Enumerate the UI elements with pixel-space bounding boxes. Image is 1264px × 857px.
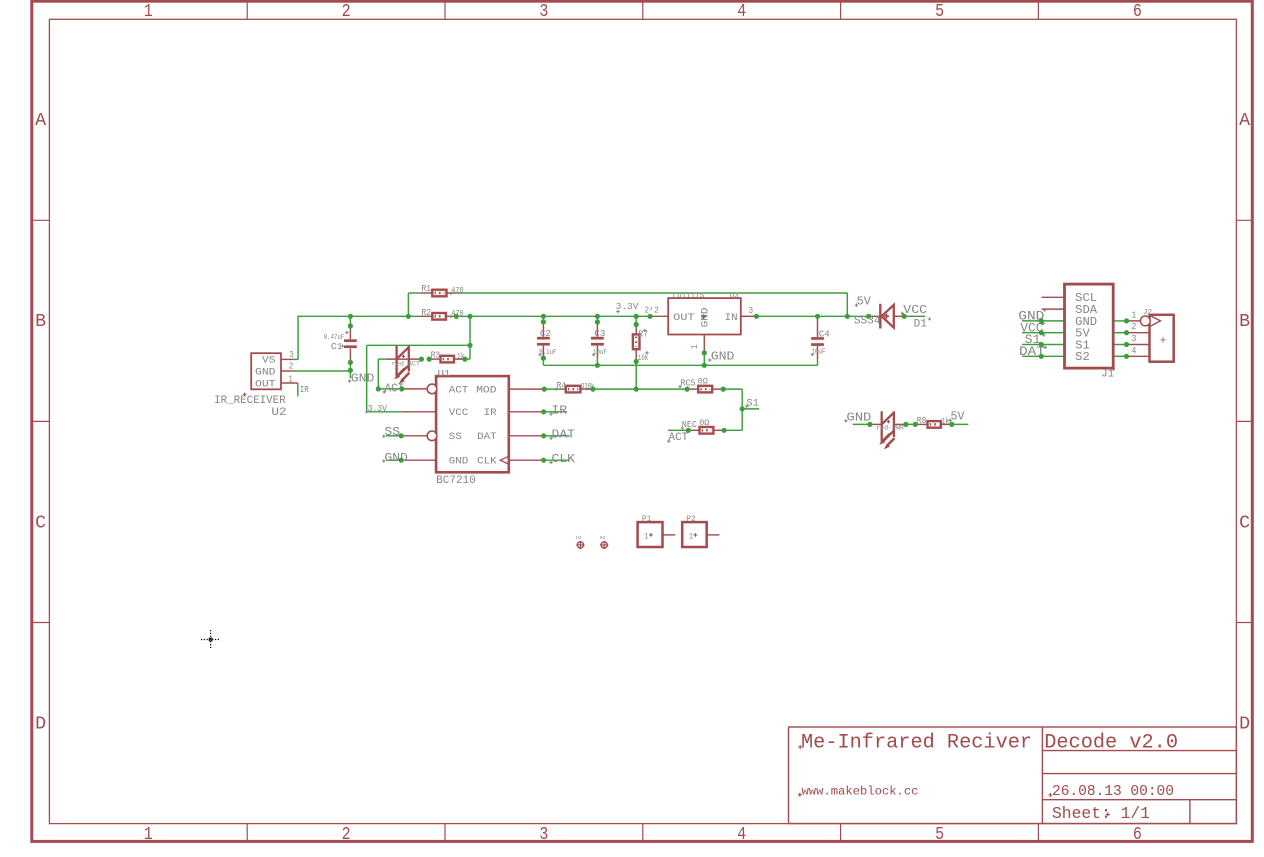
pin IR of U1 bbox=[509, 411, 544, 413]
svg-text:GND: GND bbox=[711, 350, 735, 364]
resistor R4 bbox=[561, 388, 566, 390]
resistor R3 bbox=[386, 358, 421, 360]
hole H1 bbox=[577, 542, 583, 548]
junction bbox=[595, 319, 600, 324]
svg-text:0Ω: 0Ω bbox=[699, 418, 709, 428]
svg-text:C1: C1 bbox=[331, 342, 343, 352]
svg-text:1k: 1k bbox=[941, 417, 949, 427]
resistor R1 bbox=[420, 292, 432, 294]
pin SCL stub bbox=[1042, 296, 1065, 298]
wire bbox=[367, 411, 402, 413]
capacitor C3 bbox=[596, 322, 598, 337]
capacitor C4 bbox=[817, 316, 819, 337]
pin CLK of U1 bbox=[509, 459, 544, 461]
svg-text:Sheet: 1/1: Sheet: 1/1 bbox=[1052, 805, 1150, 823]
wire bbox=[1022, 355, 1064, 357]
svg-text:OUT: OUT bbox=[673, 312, 695, 324]
svg-text:26.08.13 00:00: 26.08.13 00:00 bbox=[1052, 784, 1174, 800]
wire bbox=[349, 370, 351, 378]
junction bbox=[399, 386, 404, 391]
svg-text:IR: IR bbox=[552, 403, 568, 417]
wire bbox=[586, 388, 593, 390]
junction bbox=[1124, 354, 1129, 359]
svg-text:ACT: ACT bbox=[669, 432, 689, 444]
junction bbox=[685, 387, 690, 392]
junction bbox=[541, 409, 546, 414]
svg-text:0Ω: 0Ω bbox=[698, 377, 708, 387]
svg-text:6: 6 bbox=[1133, 2, 1142, 22]
junction bbox=[348, 323, 353, 328]
wire bbox=[377, 359, 379, 389]
svg-text:3: 3 bbox=[1131, 333, 1136, 344]
wire bbox=[635, 362, 637, 390]
svg-text:1: 1 bbox=[689, 532, 693, 542]
wire bbox=[1113, 332, 1126, 334]
connector J2 box bbox=[1150, 315, 1174, 362]
svg-text:D: D bbox=[1239, 714, 1250, 734]
resistor R7 bbox=[635, 325, 637, 335]
wire bbox=[298, 315, 420, 317]
svg-text:5: 5 bbox=[935, 2, 944, 22]
svg-text:10k: 10k bbox=[638, 353, 649, 363]
svg-text:R4: R4 bbox=[557, 381, 567, 391]
junction bbox=[634, 314, 639, 319]
LED LED2 red-PWR bbox=[870, 423, 882, 425]
junction bbox=[634, 359, 639, 364]
svg-text:Me-Infrared Reciver Decode v2.: Me-Infrared Reciver Decode v2.0 bbox=[801, 732, 1178, 755]
svg-text:1: 1 bbox=[690, 344, 700, 349]
svg-text:DAT: DAT bbox=[552, 428, 576, 442]
svg-text:U3: U3 bbox=[730, 293, 739, 301]
svg-text:1: 1 bbox=[1131, 309, 1136, 320]
svg-text:D: D bbox=[35, 714, 46, 734]
pin IN of U3 bbox=[741, 315, 756, 317]
svg-text:5: 5 bbox=[935, 825, 944, 845]
svg-text:B: B bbox=[1239, 312, 1250, 332]
svg-text:S1: S1 bbox=[746, 397, 759, 409]
svg-text:J1: J1 bbox=[1101, 368, 1114, 380]
junction bbox=[721, 387, 726, 392]
svg-text:2: 2 bbox=[1131, 321, 1136, 332]
junction bbox=[348, 314, 353, 319]
wire bbox=[952, 423, 969, 425]
svg-text:SS: SS bbox=[449, 432, 462, 443]
wire bbox=[544, 459, 570, 461]
capacitor C1 bbox=[349, 326, 351, 339]
junction bbox=[845, 314, 850, 319]
junction bbox=[541, 314, 546, 319]
wire bbox=[293, 370, 350, 372]
svg-text:10uF: 10uF bbox=[811, 349, 825, 357]
svg-text:3: 3 bbox=[749, 306, 754, 316]
svg-text:IR_RECEIVER: IR_RECEIVER bbox=[214, 395, 286, 407]
wire bbox=[408, 292, 420, 294]
svg-text:R1: R1 bbox=[422, 284, 432, 294]
wire bbox=[465, 358, 470, 360]
svg-text:P2: P2 bbox=[686, 515, 696, 524]
junction bbox=[903, 422, 908, 427]
junction bbox=[595, 363, 600, 368]
junction bbox=[541, 356, 546, 361]
svg-text:2: 2 bbox=[342, 2, 351, 22]
pad P2 bbox=[682, 522, 707, 547]
svg-text:2: 2 bbox=[654, 306, 659, 316]
wire bbox=[378, 388, 402, 390]
wire bbox=[544, 435, 570, 437]
junction bbox=[590, 387, 595, 392]
svg-text:www.makeblock.cc: www.makeblock.cc bbox=[802, 785, 919, 799]
svg-text:GND: GND bbox=[384, 451, 408, 465]
junction bbox=[634, 387, 639, 392]
svg-text:GND: GND bbox=[700, 307, 712, 327]
junction bbox=[348, 360, 353, 365]
junction bbox=[462, 357, 467, 362]
svg-text:2: 2 bbox=[342, 825, 351, 845]
svg-text:3.3V: 3.3V bbox=[368, 403, 388, 414]
pin DAT of U1 bbox=[509, 435, 544, 437]
wire bbox=[542, 316, 544, 322]
junction bbox=[427, 357, 432, 362]
svg-text:+: + bbox=[1160, 336, 1167, 348]
wire bbox=[456, 315, 650, 317]
junction bbox=[541, 319, 546, 324]
svg-text:C: C bbox=[1239, 513, 1250, 533]
wire bbox=[723, 388, 742, 390]
wire bbox=[1113, 344, 1126, 346]
svg-text:P1: P1 bbox=[642, 515, 652, 524]
junction bbox=[1039, 342, 1044, 347]
svg-text:1: 1 bbox=[288, 374, 293, 384]
junction bbox=[467, 314, 472, 319]
svg-text:GND: GND bbox=[846, 410, 871, 424]
svg-text:U1: U1 bbox=[438, 368, 451, 379]
junction bbox=[754, 314, 759, 319]
wire bbox=[543, 364, 817, 366]
svg-text:1: 1 bbox=[144, 825, 153, 845]
junction bbox=[1039, 318, 1044, 323]
wire bbox=[542, 358, 544, 365]
svg-text:U2: U2 bbox=[271, 407, 286, 419]
junction bbox=[949, 422, 954, 427]
wire bbox=[1022, 344, 1064, 346]
wire bbox=[407, 293, 409, 316]
junction bbox=[454, 314, 459, 319]
junction bbox=[595, 314, 600, 319]
pin OUT of U3 bbox=[650, 315, 668, 317]
pad P1 bbox=[638, 522, 663, 547]
wire bbox=[544, 388, 560, 390]
wire bbox=[1113, 355, 1126, 357]
ic U3 box bbox=[668, 298, 741, 334]
wire bbox=[366, 345, 368, 412]
svg-text:10uF: 10uF bbox=[593, 349, 607, 357]
svg-text:CLK: CLK bbox=[477, 457, 497, 468]
pin GND of U3 bbox=[703, 335, 705, 353]
svg-text:R2: R2 bbox=[422, 308, 432, 318]
pin MOD of U1 bbox=[509, 388, 545, 390]
svg-text:3: 3 bbox=[289, 350, 294, 360]
svg-text:3: 3 bbox=[539, 2, 548, 22]
svg-text:6: 6 bbox=[1133, 825, 1142, 845]
wire bbox=[1022, 332, 1064, 334]
svg-text:C4: C4 bbox=[819, 330, 830, 340]
pin 3 of J2 bbox=[1127, 344, 1150, 346]
junction bbox=[406, 314, 411, 319]
svg-text:SS: SS bbox=[384, 425, 400, 439]
junction bbox=[686, 428, 691, 433]
svg-text:red_ACT: red_ACT bbox=[392, 361, 420, 369]
wire bbox=[297, 383, 299, 397]
junction bbox=[634, 322, 639, 327]
svg-text:VCC: VCC bbox=[903, 303, 927, 317]
wire bbox=[596, 316, 598, 322]
svg-text:R3: R3 bbox=[431, 350, 441, 360]
junction bbox=[541, 433, 546, 438]
svg-text:BC7210: BC7210 bbox=[436, 475, 476, 487]
svg-text:4: 4 bbox=[737, 2, 746, 22]
diode D1 bbox=[869, 315, 880, 317]
svg-text:H1: H1 bbox=[576, 535, 582, 541]
svg-text:3.3V: 3.3V bbox=[616, 301, 639, 312]
resistor RC5 bbox=[687, 388, 698, 390]
connector J1 box bbox=[1065, 284, 1114, 368]
svg-text:R8: R8 bbox=[917, 416, 927, 426]
svg-text:IR: IR bbox=[484, 408, 497, 419]
junction bbox=[419, 357, 424, 362]
svg-text:VCC: VCC bbox=[449, 408, 469, 419]
resistor R8 bbox=[915, 423, 927, 425]
junction bbox=[815, 314, 820, 319]
junction bbox=[376, 386, 381, 391]
junction bbox=[866, 314, 871, 319]
svg-text:S2: S2 bbox=[1075, 350, 1090, 364]
wire bbox=[742, 408, 759, 410]
wire bbox=[469, 316, 471, 359]
svg-text:4: 4 bbox=[737, 825, 746, 845]
junction bbox=[399, 458, 404, 463]
resistor NEC bbox=[688, 429, 699, 431]
junction bbox=[702, 363, 707, 368]
capacitor C2 bbox=[542, 322, 544, 337]
junction bbox=[1124, 318, 1129, 323]
pin 2 of J2 bbox=[1127, 332, 1150, 334]
svg-text:ACT: ACT bbox=[449, 385, 469, 396]
junction bbox=[467, 343, 472, 348]
wire bbox=[703, 353, 705, 365]
svg-text:5V: 5V bbox=[951, 411, 965, 424]
junction bbox=[1039, 354, 1044, 359]
svg-text:D1: D1 bbox=[914, 318, 928, 330]
ic U2 box bbox=[251, 353, 281, 389]
junction bbox=[1124, 330, 1129, 335]
wire bbox=[349, 362, 351, 370]
svg-text:IR: IR bbox=[300, 385, 309, 395]
wire bbox=[349, 316, 351, 326]
wire bbox=[367, 344, 470, 346]
junction bbox=[1039, 330, 1044, 335]
pin SS of U1 bbox=[401, 435, 427, 437]
LED LED1 red_ACT bbox=[395, 346, 397, 377]
svg-text:CLK: CLK bbox=[552, 452, 576, 466]
wire bbox=[756, 315, 869, 317]
junction bbox=[1124, 342, 1129, 347]
svg-text:GND: GND bbox=[449, 457, 469, 468]
junction bbox=[399, 433, 404, 438]
wire bbox=[853, 423, 870, 425]
junction bbox=[542, 387, 547, 392]
wire bbox=[1022, 320, 1064, 322]
wire bbox=[596, 358, 598, 365]
svg-text:H2: H2 bbox=[600, 535, 606, 541]
svg-text:A: A bbox=[1239, 111, 1250, 131]
svg-text:3: 3 bbox=[539, 825, 548, 845]
svg-text:GND: GND bbox=[255, 368, 276, 379]
junction bbox=[740, 406, 745, 411]
svg-text:4: 4 bbox=[1131, 345, 1136, 356]
pin 4 of J2 bbox=[1127, 355, 1150, 357]
wire bbox=[668, 429, 688, 431]
wire bbox=[724, 429, 742, 431]
svg-text:B: B bbox=[35, 312, 46, 332]
svg-text:C3: C3 bbox=[594, 329, 605, 339]
svg-text:1: 1 bbox=[144, 2, 153, 22]
wire bbox=[386, 435, 401, 437]
junction bbox=[867, 422, 872, 427]
pin VCC of U1 bbox=[402, 411, 436, 413]
junction bbox=[541, 458, 546, 463]
pin ACT of U1 bbox=[402, 388, 427, 390]
hole H2 bbox=[601, 542, 607, 548]
svg-text:MOD: MOD bbox=[476, 385, 497, 396]
svg-text:A: A bbox=[35, 111, 46, 131]
svg-text:GND: GND bbox=[351, 371, 375, 385]
junction bbox=[702, 350, 707, 355]
svg-text:OUT: OUT bbox=[255, 380, 276, 391]
svg-text:red-PWR: red-PWR bbox=[876, 424, 904, 431]
wire bbox=[817, 360, 819, 366]
svg-text:C2: C2 bbox=[540, 329, 551, 339]
wire bbox=[386, 459, 401, 461]
junction bbox=[913, 422, 918, 427]
wire bbox=[904, 315, 925, 317]
svg-text:5V: 5V bbox=[857, 296, 871, 309]
junction bbox=[902, 314, 907, 319]
svg-text:VS: VS bbox=[262, 356, 276, 367]
svg-text:LD1117S: LD1117S bbox=[673, 293, 705, 301]
sheet origin cross bbox=[201, 630, 221, 650]
junction bbox=[722, 428, 727, 433]
resistor R2 bbox=[420, 315, 432, 317]
svg-text:C: C bbox=[35, 513, 46, 533]
wire bbox=[593, 388, 687, 390]
svg-text:1: 1 bbox=[644, 532, 648, 542]
svg-text:DAT: DAT bbox=[477, 432, 497, 443]
wire bbox=[378, 358, 386, 360]
svg-text:IN: IN bbox=[725, 312, 738, 324]
ic U1 box bbox=[436, 376, 509, 472]
pin SDA stub bbox=[1042, 308, 1065, 310]
svg-text:0.47uF: 0.47uF bbox=[324, 334, 344, 342]
junction bbox=[647, 314, 652, 319]
svg-text:0.1uF: 0.1uF bbox=[539, 349, 556, 357]
junction bbox=[348, 368, 353, 373]
svg-text:2: 2 bbox=[645, 306, 650, 316]
wire bbox=[906, 423, 915, 425]
wire bbox=[635, 316, 637, 324]
pin GND of U1 bbox=[401, 459, 436, 461]
wire bbox=[457, 292, 848, 294]
svg-text:2: 2 bbox=[289, 361, 294, 371]
svg-text:470: 470 bbox=[451, 285, 463, 295]
wire bbox=[1113, 320, 1126, 322]
wire bbox=[544, 411, 568, 413]
wire bbox=[741, 389, 743, 430]
wire bbox=[297, 316, 299, 360]
clock mark at CLK pin bbox=[500, 456, 508, 464]
wire bbox=[846, 293, 848, 316]
pin 1 of J2 bbox=[1127, 320, 1141, 322]
